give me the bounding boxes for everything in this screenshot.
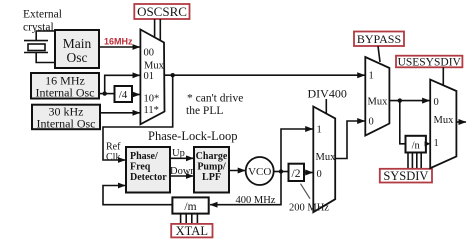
wire 16MHz osc output to /4 [99,93,115,95]
wire /2 to DIV400 mux 0 [304,172,313,174]
wire Main Osc output 16MHz to mux 00 [99,46,140,48]
svg-text:1: 1 [434,138,439,149]
select line USESYSDIV to mux [442,67,444,85]
label box BYPASS [354,32,404,47]
svg-text:Detector: Detector [130,172,167,183]
block Charge Pump/LPF [194,147,229,193]
svg-text:16MHz: 16MHz [104,37,133,47]
junction BYPASS output [398,98,402,102]
svg-text:Internal Osc: Internal Osc [36,86,95,100]
divider /n [406,136,426,153]
svg-text:Charge: Charge [196,151,228,162]
wire VCO 400MHz up to DIV400 mux 1 [281,129,313,172]
svg-text:Osc: Osc [67,50,88,65]
wire /4 to mux 10* [132,94,140,96]
svg-text:200 MHz: 200 MHz [289,203,329,214]
oscillator 30 kHz Internal Osc [32,105,100,131]
wire mux output bus to BYPASS mux 1 [165,74,365,76]
divider /4 [115,86,133,102]
oscillator Main Osc [55,30,99,68]
svg-text:External: External [23,9,62,21]
svg-text:Pump/: Pump/ [197,162,226,173]
wire /m output to detector (feedback) [103,186,172,205]
divider /2 [289,164,305,181]
wire crystal bottom lead to Main Osc [36,53,55,63]
svg-text:the PLL: the PLL [186,105,223,117]
label box SYSDIV [380,169,432,183]
wire 16MHz osc to mux 01 [105,75,140,93]
callout line 200 MHz [301,184,311,199]
svg-text:USESYSDIV: USESYSDIV [398,57,462,69]
wire 30kHz osc to mux 11* [100,112,140,114]
svg-text:Mux: Mux [144,61,165,72]
mux USESYSDIV [430,80,456,169]
wire BYPASS output down to /n [400,101,406,144]
svg-text:XTAL: XTAL [176,224,208,238]
svg-text:BYPASS: BYPASS [357,32,401,46]
svg-text:LPF: LPF [202,172,221,183]
junction VCO output [279,169,283,173]
svg-text:00: 00 [144,48,155,59]
svg-text:VCO: VCO [248,166,271,178]
svg-text:/n: /n [412,141,421,152]
svg-text:Clk: Clk [106,152,120,163]
wire Charge Pump to VCO [229,170,245,172]
wire BYPASS mux output to USESYSDIV mux 0 [389,100,429,102]
label Ref Clk [106,142,121,164]
mux DIV400 [313,107,336,213]
select lines SYSDIV to /n [408,153,421,169]
wire crystal top lead to Main Osc [36,31,55,41]
select line DIV400 to mux [325,99,327,114]
note: * can't drive the PLL [186,93,243,118]
svg-text:OSCSRC: OSCSRC [137,4,187,19]
oscillator 16 MHz Internal Osc [31,73,99,100]
svg-text:/2: /2 [292,168,301,180]
svg-text:400 MHz: 400 MHz [236,195,276,206]
svg-text:Mux: Mux [434,115,455,126]
svg-text:10*: 10* [144,94,160,105]
label box OSCSRC [134,4,189,19]
svg-text:Mux: Mux [316,152,337,163]
svg-text:* can't drive: * can't drive [187,93,243,105]
wire DIV400 mux output to BYPASS mux 0 [335,121,365,159]
junction mux output [171,73,175,77]
svg-text:0: 0 [434,97,439,108]
svg-text:1: 1 [317,125,322,136]
block Phase/Freq Detector [126,147,170,193]
crystal Y1 [24,41,48,53]
wire system clock output [456,121,466,123]
svg-text:Up: Up [172,148,185,159]
wire /n output to USESYSDIV mux 1 [425,143,428,145]
svg-text:01: 01 [144,71,155,82]
select lines OSCSRC to mux [154,19,156,38]
wire VCO 400MHz down to /m (feedback) [210,172,281,205]
mux BYPASS [365,57,389,136]
wire Ref Clk from junction to Phase/Freq Detector [103,75,173,160]
oscillator VCO [246,157,274,185]
label: External crystal [23,9,62,34]
label box XTAL [171,224,212,238]
svg-text:0: 0 [317,169,322,180]
svg-text:0: 0 [369,117,374,128]
svg-text:Ref: Ref [106,142,121,153]
svg-text:Main: Main [63,36,92,51]
mux OSCSRC (4-input) [140,30,164,125]
wire VCO output to /2 [274,171,289,173]
svg-text:/m: /m [184,201,196,213]
select lines XTAL to /m [181,214,198,224]
junction 16MHz osc [103,91,107,95]
select line BYPASS to mux [378,46,380,62]
svg-text:Internal Osc: Internal Osc [37,117,96,131]
svg-text:Phase-Lock-Loop: Phase-Lock-Loop [148,129,238,143]
wire Up arrow [170,157,193,159]
svg-text:SYSDIV: SYSDIV [383,169,428,183]
wire Down arrow [170,175,193,177]
label box USESYSDIV [396,56,462,69]
svg-text:/4: /4 [119,89,128,101]
svg-text:DIV400: DIV400 [308,87,347,101]
svg-text:1: 1 [369,71,374,82]
divider /m [172,197,208,213]
svg-text:11*: 11* [144,105,159,116]
svg-text:Phase/: Phase/ [130,151,158,162]
svg-text:Mux: Mux [368,97,389,108]
svg-text:Freq: Freq [130,162,151,173]
